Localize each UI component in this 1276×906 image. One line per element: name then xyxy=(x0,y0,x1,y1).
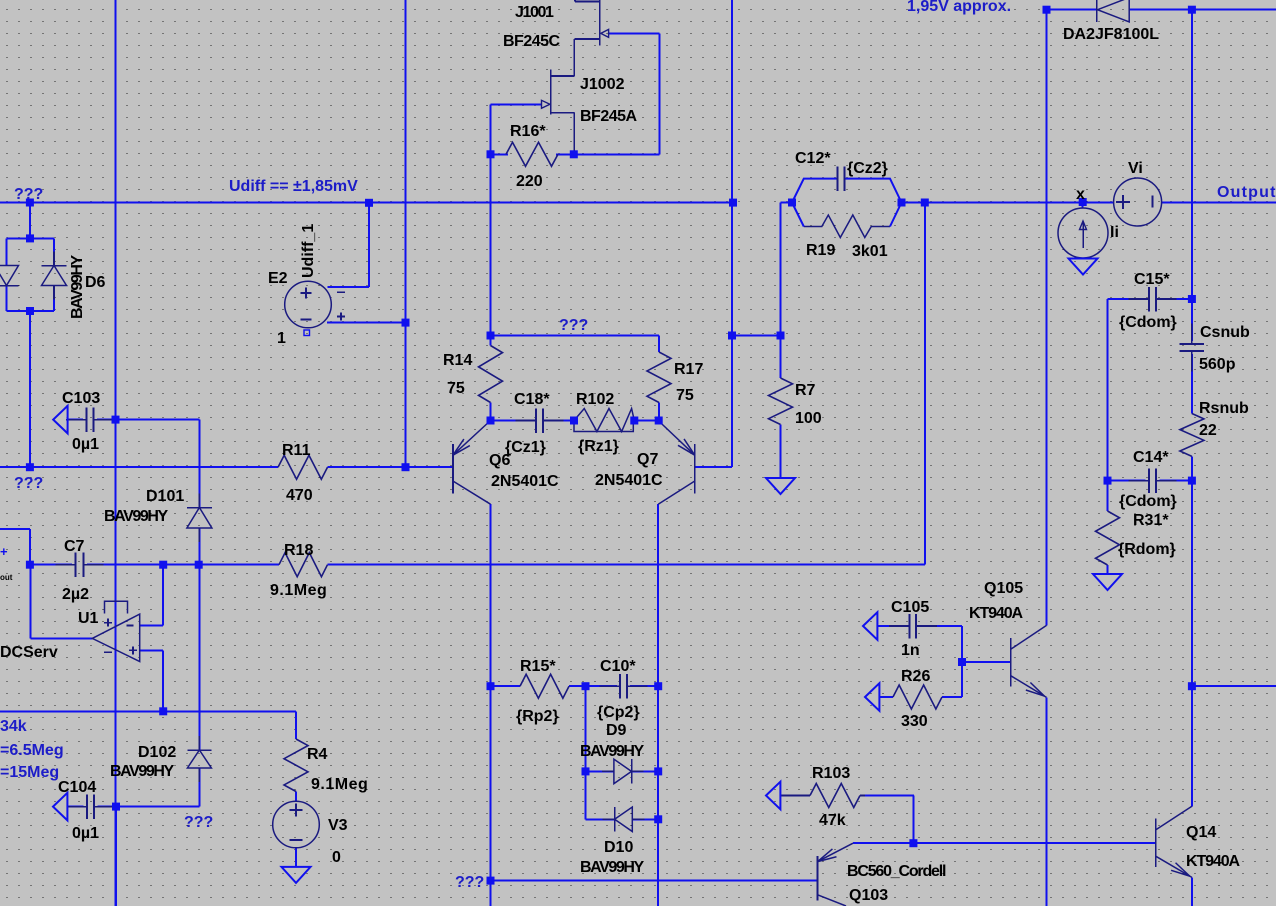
svg-text:R14: R14 xyxy=(443,352,472,369)
svg-text:2N5401C: 2N5401C xyxy=(595,472,663,489)
svg-text:{Cdom}: {Cdom} xyxy=(1119,493,1177,510)
svg-text:???: ??? xyxy=(14,475,43,492)
svg-text:R31*: R31* xyxy=(1133,512,1169,529)
svg-text:1n: 1n xyxy=(901,642,920,659)
svg-text:=6.5Meg: =6.5Meg xyxy=(0,742,64,759)
svg-text:DCServ: DCServ xyxy=(0,644,58,661)
svg-text:9.1Meg: 9.1Meg xyxy=(270,582,327,599)
svg-text:Udiff_1: Udiff_1 xyxy=(300,224,317,278)
svg-text:Output: Output xyxy=(1217,184,1276,201)
svg-text:D10: D10 xyxy=(604,839,633,856)
svg-text:DA2JF8100L: DA2JF8100L xyxy=(1063,26,1159,43)
svg-text:BF245C: BF245C xyxy=(503,33,561,50)
svg-text:22: 22 xyxy=(1199,422,1217,439)
svg-text:1,95V approx.: 1,95V approx. xyxy=(907,0,1011,15)
svg-text:D101: D101 xyxy=(146,488,184,505)
svg-text:x: x xyxy=(1076,186,1085,203)
svg-text:Q7: Q7 xyxy=(637,451,658,468)
svg-text:R16*: R16* xyxy=(510,123,546,140)
svg-text:0µ1: 0µ1 xyxy=(72,436,99,453)
svg-text:U1: U1 xyxy=(78,610,99,627)
svg-text:{Cz2}: {Cz2} xyxy=(847,160,888,177)
svg-text:2µ2: 2µ2 xyxy=(62,586,89,603)
svg-text:75: 75 xyxy=(447,380,465,397)
svg-text:{Cdom}: {Cdom} xyxy=(1119,314,1177,331)
svg-text:100: 100 xyxy=(795,410,822,427)
svg-text:560p: 560p xyxy=(1199,356,1236,373)
svg-text:KT940A: KT940A xyxy=(969,605,1024,622)
svg-text:BC560_Cordell: BC560_Cordell xyxy=(847,863,946,880)
svg-text:C15*: C15* xyxy=(1134,271,1170,288)
svg-text:D9: D9 xyxy=(606,722,627,739)
svg-text:E2: E2 xyxy=(268,270,288,287)
svg-text:???: ??? xyxy=(559,317,588,334)
svg-text:0µ1: 0µ1 xyxy=(72,825,99,842)
svg-text:{Cz1}: {Cz1} xyxy=(505,439,546,456)
svg-text:BAV99HY: BAV99HY xyxy=(110,763,175,780)
svg-text:C7: C7 xyxy=(64,538,85,555)
svg-text:330: 330 xyxy=(901,713,928,730)
svg-text:Rsnub: Rsnub xyxy=(1199,400,1249,417)
svg-text:R15*: R15* xyxy=(520,658,556,675)
svg-text:=15Meg: =15Meg xyxy=(0,764,59,781)
svg-text:75: 75 xyxy=(676,387,694,404)
svg-text:Csnub: Csnub xyxy=(1200,324,1250,341)
svg-text:Udiff == ±1,85mV: Udiff == ±1,85mV xyxy=(229,178,358,195)
svg-text:D102: D102 xyxy=(138,744,176,761)
svg-text:3k01: 3k01 xyxy=(852,243,888,260)
svg-text:470: 470 xyxy=(286,487,313,504)
svg-text:{Cp2}: {Cp2} xyxy=(597,704,640,721)
svg-text:Q103: Q103 xyxy=(849,887,888,904)
svg-text:C10*: C10* xyxy=(600,658,636,675)
svg-text:BF245A: BF245A xyxy=(580,108,638,125)
svg-text:{Rp2}: {Rp2} xyxy=(516,708,559,725)
svg-text:C104: C104 xyxy=(58,779,96,796)
svg-text:{Rz1}: {Rz1} xyxy=(578,438,619,455)
svg-text:1: 1 xyxy=(277,330,286,347)
svg-text:C12*: C12* xyxy=(795,150,831,167)
svg-text:47k: 47k xyxy=(819,812,846,829)
svg-text:???: ??? xyxy=(14,186,43,203)
svg-text:BAV99HY: BAV99HY xyxy=(580,859,645,876)
svg-text:{Rdom}: {Rdom} xyxy=(1118,541,1176,558)
svg-text:0: 0 xyxy=(332,849,341,866)
svg-text:9.1Meg: 9.1Meg xyxy=(311,776,368,793)
svg-text:???: ??? xyxy=(184,814,213,831)
svg-text:C14*: C14* xyxy=(1133,449,1169,466)
svg-text:34k: 34k xyxy=(0,718,27,735)
svg-text:R103: R103 xyxy=(812,765,850,782)
svg-text:BAV99HY: BAV99HY xyxy=(69,254,86,319)
svg-text:R18: R18 xyxy=(284,542,313,559)
svg-text:D6: D6 xyxy=(85,274,106,291)
svg-text:Q14: Q14 xyxy=(1186,824,1216,841)
svg-text:R19: R19 xyxy=(806,242,835,259)
svg-text:BAV99HY: BAV99HY xyxy=(580,743,645,760)
svg-text:R4: R4 xyxy=(307,746,328,763)
svg-text:Vi: Vi xyxy=(1128,160,1143,177)
svg-text:Ii: Ii xyxy=(1110,224,1119,241)
svg-text:R17: R17 xyxy=(674,361,703,378)
svg-text:C18*: C18* xyxy=(514,391,550,408)
svg-text:???: ??? xyxy=(455,874,484,891)
svg-text:R26: R26 xyxy=(901,668,930,685)
svg-text:C103: C103 xyxy=(62,390,100,407)
svg-text:KT940A: KT940A xyxy=(1186,853,1241,870)
svg-text:Q6: Q6 xyxy=(489,452,510,469)
svg-text:R7: R7 xyxy=(795,382,816,399)
svg-text:2N5401C: 2N5401C xyxy=(491,473,559,490)
svg-text:C105: C105 xyxy=(891,599,929,616)
svg-text:out: out xyxy=(0,573,13,582)
svg-text:BAV99HY: BAV99HY xyxy=(104,508,169,525)
svg-text:R102: R102 xyxy=(576,391,614,408)
svg-text:J1002: J1002 xyxy=(580,76,625,93)
svg-text:R11: R11 xyxy=(282,442,311,459)
svg-text:V3: V3 xyxy=(328,817,348,834)
svg-text:+: + xyxy=(0,544,8,559)
svg-text:220: 220 xyxy=(516,173,543,190)
svg-text:Q105: Q105 xyxy=(984,580,1023,597)
svg-text:J1001: J1001 xyxy=(515,4,554,21)
